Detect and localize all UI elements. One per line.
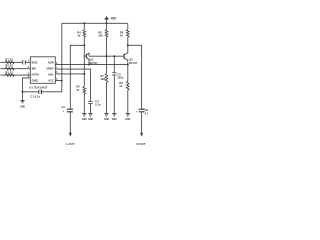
svg-text:4.7u: 4.7u bbox=[145, 113, 148, 116]
ground C5 bbox=[112, 114, 116, 117]
node H3 divider bbox=[106, 55, 108, 57]
wire collector tap to output column bbox=[70, 45, 84, 109]
arrow R-OUT bbox=[140, 113, 143, 136]
svg-text:WS: WS bbox=[32, 67, 37, 71]
ground IC bbox=[20, 101, 24, 103]
resistor R2 bbox=[5, 67, 14, 70]
wire +8V rail bbox=[62, 22, 128, 24]
node rail-R4 bbox=[83, 22, 85, 24]
wire H3 collector to Q2 base bbox=[89, 55, 124, 57]
ground R9 bbox=[126, 114, 130, 117]
wire DATA input row bbox=[0, 74, 30, 76]
svg-text:0.1u: 0.1u bbox=[95, 103, 101, 107]
wire H4 AOR row bbox=[55, 64, 128, 66]
node Q1 emitter bbox=[88, 63, 90, 65]
wire WS input row bbox=[0, 68, 30, 70]
node AOL-base column bbox=[83, 73, 85, 75]
ground C4 bbox=[88, 114, 92, 117]
svg-text:+8V: +8V bbox=[110, 17, 117, 21]
capacitor C4 bbox=[88, 102, 92, 114]
capacitor C5 bbox=[112, 56, 116, 113]
svg-text:GND: GND bbox=[104, 119, 109, 121]
svg-text:BC547: BC547 bbox=[129, 61, 138, 65]
wire R-OUT branch bbox=[128, 45, 142, 108]
ground R7 bbox=[104, 114, 108, 117]
arrow L-OUT bbox=[69, 113, 72, 136]
svg-text:GND: GND bbox=[32, 79, 38, 83]
node Q2 emitter bbox=[127, 63, 129, 65]
svg-text:R-OUT: R-OUT bbox=[137, 142, 146, 146]
resistor R1 bbox=[5, 61, 14, 64]
capacitor C1 bbox=[23, 90, 42, 94]
svg-text:R1 33: R1 33 bbox=[5, 57, 13, 61]
wire base column bbox=[83, 45, 85, 86]
svg-text:GND: GND bbox=[20, 106, 25, 108]
svg-text:L-OUT: L-OUT bbox=[66, 142, 75, 146]
wire AOL row bbox=[55, 73, 84, 75]
wire VCC to C1 bbox=[41, 81, 61, 92]
svg-text:U1 TDA1543T: U1 TDA1543T bbox=[29, 86, 47, 90]
svg-text:GND: GND bbox=[82, 119, 87, 121]
svg-text:+: + bbox=[63, 110, 65, 113]
svg-text:1k: 1k bbox=[76, 88, 79, 92]
svg-text:DATA: DATA bbox=[32, 73, 39, 77]
svg-text:R3 33: R3 33 bbox=[5, 71, 13, 75]
resistor R6 bbox=[105, 23, 108, 56]
resistor R5 bbox=[83, 86, 86, 113]
resistor R8 bbox=[127, 23, 130, 53]
svg-text:GND: GND bbox=[125, 119, 130, 121]
svg-text:VCC: VCC bbox=[48, 79, 54, 83]
node Q1 base bbox=[84, 55, 86, 57]
power symbol +8V bbox=[105, 16, 109, 23]
resistor R7 bbox=[105, 56, 108, 113]
resistor R3 bbox=[5, 74, 14, 77]
node rail-R6 bbox=[106, 22, 108, 24]
svg-text:1k: 1k bbox=[77, 34, 80, 38]
capacitor C3 bbox=[67, 109, 73, 113]
wire VREF column bbox=[55, 69, 90, 101]
svg-text:VREF: VREF bbox=[46, 67, 54, 71]
svg-text:C1 0.1u: C1 0.1u bbox=[30, 94, 40, 98]
svg-text:R2 33: R2 33 bbox=[5, 64, 13, 68]
svg-text:BCK: BCK bbox=[32, 61, 38, 65]
wire VCC drop from rail bbox=[61, 23, 63, 80]
svg-text:1k: 1k bbox=[120, 34, 123, 38]
node C1 gnd column bbox=[22, 91, 24, 93]
node Q2 collector tap bbox=[127, 44, 129, 46]
transistor Q1 bbox=[84, 53, 89, 65]
wire BCK input row bbox=[0, 61, 30, 63]
svg-text:10k: 10k bbox=[98, 34, 103, 38]
svg-text:100u: 100u bbox=[117, 76, 123, 80]
transistor Q2 bbox=[124, 53, 128, 64]
svg-text:1k: 1k bbox=[119, 84, 122, 88]
svg-text:1k8: 1k8 bbox=[100, 77, 105, 81]
resistor R4 bbox=[83, 23, 86, 45]
svg-text:AOR: AOR bbox=[48, 61, 54, 65]
capacitor input coupling bbox=[23, 60, 26, 64]
node base column top bbox=[83, 44, 85, 46]
wire GND pin to ground bbox=[23, 78, 31, 101]
node VCC C1 tap bbox=[61, 80, 63, 82]
node C5 tap bbox=[113, 55, 115, 57]
svg-text:+: + bbox=[136, 111, 138, 114]
svg-text:C3: C3 bbox=[62, 106, 66, 109]
IC U1 TDA1543 bbox=[30, 57, 55, 84]
svg-text:AOL: AOL bbox=[48, 73, 54, 77]
svg-text:GND: GND bbox=[112, 119, 117, 121]
ground R5 bbox=[82, 114, 86, 117]
node base column crossing bbox=[84, 64, 85, 65]
capacitor C6 bbox=[139, 109, 145, 113]
resistor R9 bbox=[127, 65, 130, 114]
svg-text:GND: GND bbox=[88, 119, 93, 121]
